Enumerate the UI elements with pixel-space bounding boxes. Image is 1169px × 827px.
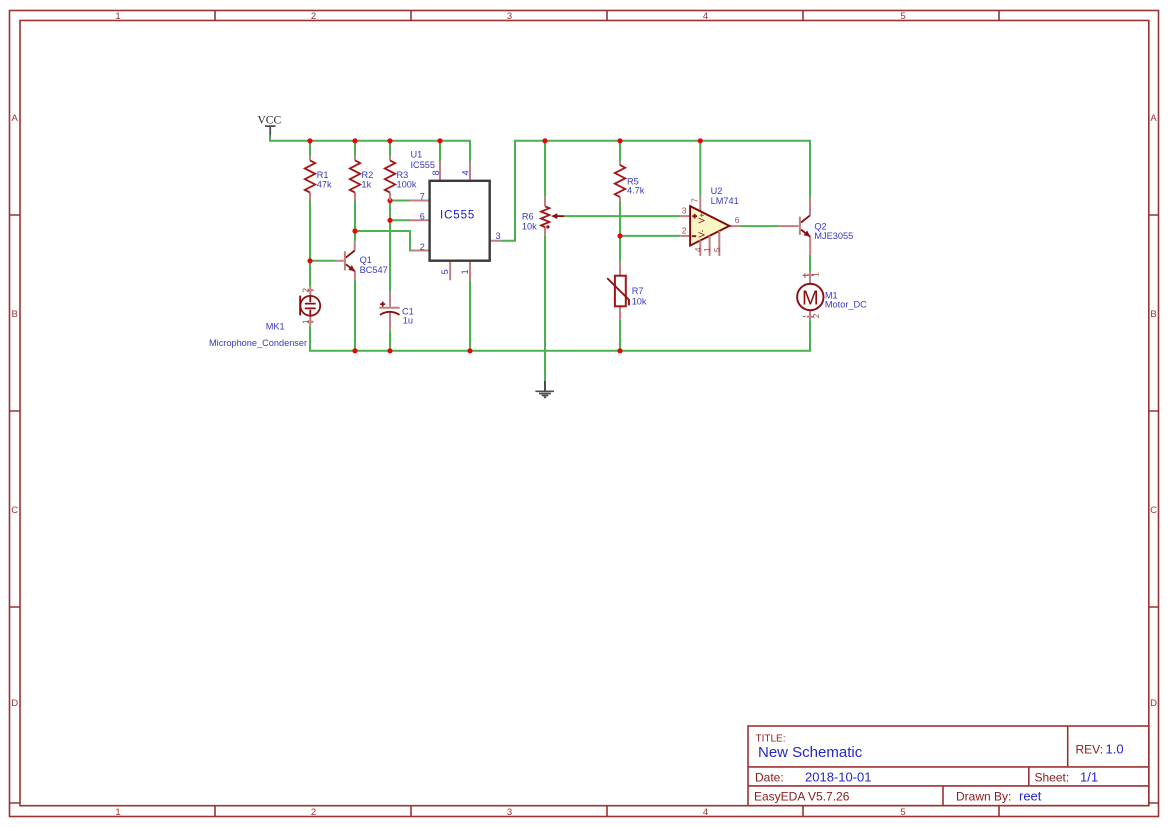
resistor R2 [350, 156, 373, 200]
svg-text:R3: R3 [397, 170, 409, 180]
svg-text:A: A [1150, 113, 1157, 124]
wire R5 riser from output rail [619, 141, 621, 161]
svg-text:1: 1 [115, 807, 120, 818]
svg-text:10k: 10k [632, 296, 647, 306]
svg-text:3: 3 [507, 11, 512, 22]
svg-text:LM741: LM741 [711, 196, 739, 206]
svg-text:10k: 10k [522, 222, 537, 232]
title block frame [748, 726, 1149, 806]
junction dots [307, 138, 703, 353]
border row ticks right [1149, 215, 1159, 803]
svg-text:MK1: MK1 [266, 322, 285, 332]
wire R3 node down to C1 top [389, 201, 391, 292]
svg-text:reet: reet [1019, 789, 1042, 804]
wire U2 output to Q2 base [740, 225, 779, 227]
svg-text:B: B [1150, 309, 1156, 320]
node R5-U2pin2 [617, 233, 622, 238]
wire U1 pin3 output rail to Q2 collector [501, 141, 810, 241]
svg-text:+: + [802, 271, 808, 282]
svg-text:R2: R2 [362, 170, 374, 180]
svg-text:7: 7 [689, 198, 699, 203]
svg-text:Sheet:: Sheet: [1035, 771, 1070, 785]
svg-text:1: 1 [300, 319, 310, 324]
motor M1 [797, 271, 867, 323]
node Q1collector [352, 228, 357, 233]
node VCC-R3 [387, 138, 392, 143]
node bottom-R7 [617, 348, 622, 353]
svg-text:100k: 100k [397, 180, 417, 190]
svg-text:C: C [11, 505, 18, 516]
svg-text:Date:: Date: [755, 771, 784, 785]
svg-text:4: 4 [703, 807, 708, 818]
wire R2 drop from VCC rail [354, 141, 356, 157]
svg-text:Drawn By:: Drawn By: [956, 790, 1011, 804]
potentiometer R6 [522, 197, 564, 236]
svg-text:2: 2 [311, 11, 316, 22]
svg-text:B: B [12, 309, 18, 320]
svg-text:IC555: IC555 [411, 160, 436, 170]
svg-text:U2: U2 [711, 186, 723, 196]
svg-text:D: D [11, 698, 18, 709]
svg-text:U1: U1 [411, 149, 423, 159]
svg-text:47k: 47k [317, 180, 332, 190]
node bottom-C1 [387, 348, 392, 353]
svg-text:BC547: BC547 [360, 265, 388, 275]
svg-text:6: 6 [420, 211, 425, 221]
border row letters right [1150, 113, 1157, 709]
svg-text:R7: R7 [632, 286, 644, 296]
svg-text:5: 5 [900, 807, 905, 818]
op-amp U2 LM741 [680, 186, 740, 256]
svg-text:Q2: Q2 [814, 222, 826, 232]
transistor Q1 BC547 [335, 241, 388, 280]
svg-text:R6: R6 [522, 211, 534, 221]
wire R1 drop from VCC rail [309, 141, 311, 157]
svg-text:2: 2 [311, 807, 316, 818]
wire node to U2 pin2 [620, 235, 680, 237]
node VCC-R1 [307, 138, 312, 143]
border column numbers bottom [115, 807, 905, 818]
svg-text:2: 2 [300, 288, 310, 293]
wire R2 bottom to Q1 collector node [354, 201, 356, 242]
svg-text:A: A [12, 113, 19, 124]
resistor R3 [385, 156, 417, 200]
border row ticks left [10, 215, 21, 803]
wire node R1-MK1 to Q1 base [310, 260, 335, 262]
wire MK1 bottom + ground bottom rail + M1 bottom riser [310, 320, 810, 351]
node R1-Q1base [307, 258, 312, 263]
svg-text:1u: 1u [403, 315, 413, 325]
border column numbers top [115, 11, 905, 22]
svg-text:5: 5 [900, 11, 905, 22]
svg-text:2: 2 [420, 242, 425, 252]
svg-text:5: 5 [440, 269, 450, 274]
svg-text:1/1: 1/1 [1080, 770, 1098, 785]
svg-text:7: 7 [420, 191, 425, 201]
svg-text:4: 4 [703, 11, 708, 22]
wire C1 bottom to bottom rail [389, 330, 391, 351]
wire U1 pin1 to bottom rail [469, 280, 471, 351]
node rail-R6 [542, 138, 547, 143]
wire R3 bottom node to U1 pin7 [390, 200, 410, 202]
preset resistor R7 [607, 262, 647, 320]
svg-text:1: 1 [115, 11, 120, 22]
svg-text:Microphone_Condenser: Microphone_Condenser [209, 338, 307, 348]
svg-text:EasyEDA V5.7.26: EasyEDA V5.7.26 [754, 790, 850, 804]
svg-text:3: 3 [507, 807, 512, 818]
svg-text:2: 2 [682, 225, 687, 235]
wire R6 riser from output rail [544, 141, 546, 197]
border column ticks top [215, 11, 999, 21]
resistor R1 [305, 156, 332, 200]
wire R1 bottom to MK1 top [309, 201, 311, 287]
svg-text:VCC: VCC [258, 115, 282, 127]
svg-text:1k: 1k [362, 180, 372, 190]
wire Q1 emitter to bottom rail [354, 280, 356, 351]
svg-text:4.7k: 4.7k [627, 186, 645, 196]
transistor Q2 MJE3055 [779, 198, 854, 255]
svg-text:6: 6 [735, 215, 740, 225]
svg-text:3: 3 [496, 231, 501, 241]
svg-text:1.0: 1.0 [1106, 742, 1124, 757]
svg-text:5: 5 [712, 247, 722, 252]
node VCC-R2 [352, 138, 357, 143]
node bottom-U1pin1 [467, 348, 472, 353]
border column ticks bottom [215, 806, 999, 817]
IC U1 IC555 [410, 149, 501, 280]
svg-text:1: 1 [460, 269, 470, 274]
wire Q1 collector node to U1 pin2 bend [355, 231, 411, 251]
svg-text:2018-10-01: 2018-10-01 [805, 770, 872, 785]
svg-text:IC555: IC555 [440, 210, 475, 222]
node bottom-Q1emitter [352, 348, 357, 353]
svg-text:1: 1 [702, 247, 712, 252]
wire R3 drop from VCC rail [389, 141, 391, 157]
wire node to U1 pin6 [390, 219, 410, 221]
svg-text:8: 8 [431, 170, 441, 175]
svg-text:R1: R1 [317, 170, 329, 180]
ground [535, 381, 554, 398]
svg-text:3: 3 [682, 205, 687, 215]
svg-text:Motor_DC: Motor_DC [825, 299, 867, 309]
svg-text:V-: V- [696, 229, 706, 237]
svg-text:TITLE:: TITLE: [756, 734, 786, 745]
svg-text:2: 2 [811, 313, 821, 318]
border row letters left [11, 113, 18, 709]
svg-text:1: 1 [811, 272, 821, 277]
wire R6 wiper to U2 pin3 [564, 215, 680, 217]
svg-text:-: - [803, 311, 806, 322]
wire Q2 emitter to M1 top [809, 255, 811, 272]
svg-text:REV:: REV: [1076, 743, 1104, 757]
wire U1 pin8 drop from VCC rail [439, 141, 441, 162]
resistor R5 [615, 161, 645, 201]
svg-text:Q1: Q1 [360, 255, 372, 265]
node rail-U2pin7 [698, 138, 703, 143]
wire R6 bottom to ground [544, 236, 546, 381]
node R3-pin6 [387, 218, 392, 223]
svg-text:New Schematic: New Schematic [758, 744, 863, 761]
node rail-R5 [617, 138, 622, 143]
VCC symbol [258, 115, 282, 136]
wire U2 pin7 riser from output rail [699, 141, 701, 197]
svg-text:V+: V+ [696, 213, 706, 224]
wire R5 bottom to R7 top [619, 201, 621, 262]
node R3-pin7 [387, 198, 392, 203]
capacitor C1 [379, 291, 413, 330]
wire VCC top rail [270, 135, 470, 161]
node VCC-pin8 [437, 138, 442, 143]
wire R7 bottom to bottom rail [619, 320, 621, 351]
svg-text:D: D [1150, 698, 1157, 709]
microphone MK1 [209, 287, 320, 348]
svg-text:C: C [1150, 505, 1157, 516]
svg-text:M: M [802, 288, 819, 310]
svg-text:4: 4 [461, 170, 471, 175]
svg-text:MJE3055: MJE3055 [814, 231, 853, 241]
